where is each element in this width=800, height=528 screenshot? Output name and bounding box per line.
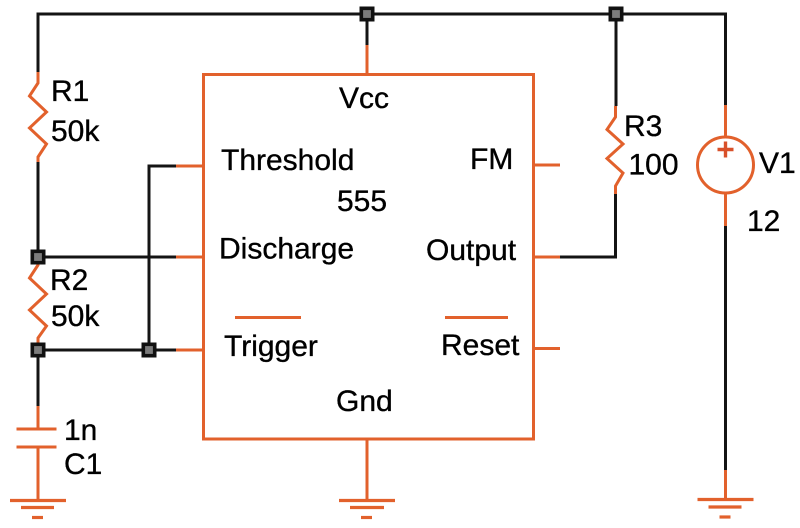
node C junction on trigger wire bbox=[143, 344, 154, 355]
resistor R1 bbox=[30, 72, 101, 162]
pin Gnd stub (bottom of 555) bbox=[366, 439, 369, 500]
pin FM stub bbox=[534, 164, 560, 167]
svg-text:Threshold: Threshold bbox=[221, 144, 354, 177]
resistor R2 bbox=[30, 259, 101, 344]
svg-text:FM: FM bbox=[470, 143, 513, 176]
svg-text:R3: R3 bbox=[624, 110, 662, 143]
pin Output stub bbox=[534, 256, 560, 259]
wire right drop from top rail to V1 bbox=[724, 13, 727, 138]
svg-text:1n: 1n bbox=[64, 414, 97, 447]
wire discharge net: node A to Discharge pin bbox=[38, 256, 203, 259]
svg-text:V1: V1 bbox=[759, 147, 796, 180]
wire R1 to node A bbox=[37, 162, 40, 257]
svg-text:Trigger: Trigger bbox=[224, 330, 318, 363]
svg-text:Vcc: Vcc bbox=[339, 82, 389, 115]
resistor R3 bbox=[607, 106, 679, 194]
wire left drop from top rail to R1 bbox=[37, 13, 40, 73]
junction Vcc node on top rail bbox=[361, 8, 372, 19]
node A junction at R1/R2/Discharge bbox=[32, 251, 43, 262]
svg-text:50k: 50k bbox=[51, 300, 100, 333]
svg-text:Gnd: Gnd bbox=[336, 385, 393, 418]
wire node B to C1 bbox=[37, 350, 40, 406]
ground center (555 Gnd) bbox=[339, 501, 395, 518]
svg-text:R2: R2 bbox=[50, 264, 88, 297]
IC U1: 555 timer body bbox=[204, 75, 534, 440]
wire top rail bbox=[38, 13, 726, 16]
wire V1 bottom to ground right bbox=[724, 193, 727, 500]
svg-text:Output: Output bbox=[426, 234, 517, 267]
capacitor C1 bbox=[17, 406, 103, 500]
wire top rail to R3 bbox=[615, 14, 618, 106]
svg-text:Discharge: Discharge bbox=[219, 233, 354, 266]
svg-text:50k: 50k bbox=[51, 115, 100, 148]
node B junction at R2/C1/trigger wire bbox=[32, 344, 43, 355]
svg-text:C1: C1 bbox=[64, 448, 102, 481]
wire output net: R3 bottom down, left to Output pin bbox=[560, 194, 616, 257]
junction R3 node on top rail bbox=[610, 8, 621, 19]
ground left (C1) bbox=[10, 501, 66, 518]
pin Vcc stub (top of 555) bbox=[366, 14, 369, 74]
wire threshold net: L-shape from Threshold pin down to node C bbox=[149, 166, 203, 350]
wire trigger net: node B to Trigger pin bbox=[38, 349, 203, 352]
svg-text:100: 100 bbox=[629, 149, 679, 182]
overline above Trigger (active low) bbox=[235, 316, 301, 319]
overline above Reset (active low) bbox=[445, 316, 508, 319]
svg-text:R1: R1 bbox=[51, 75, 89, 108]
svg-text:555: 555 bbox=[337, 185, 387, 218]
svg-text:Reset: Reset bbox=[441, 329, 520, 362]
svg-text:12: 12 bbox=[747, 205, 780, 238]
ground right (V1) bbox=[698, 500, 754, 518]
voltage source V1 bbox=[698, 137, 796, 238]
pin Reset stub bbox=[534, 347, 560, 350]
